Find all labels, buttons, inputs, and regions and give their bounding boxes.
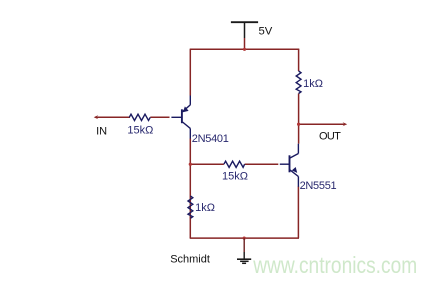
svg-text:2N5551: 2N5551 (300, 180, 337, 192)
svg-text:www.cntronics.com: www.cntronics.com (252, 252, 417, 278)
svg-text:1kΩ: 1kΩ (195, 202, 215, 214)
svg-text:2N5401: 2N5401 (192, 133, 229, 145)
svg-text:15kΩ: 15kΩ (127, 124, 153, 136)
svg-text:15kΩ: 15kΩ (222, 171, 248, 183)
svg-text:5V: 5V (259, 26, 273, 38)
svg-text:1kΩ: 1kΩ (303, 78, 323, 90)
svg-text:IN: IN (96, 125, 107, 137)
svg-text:Schmidt: Schmidt (170, 253, 210, 265)
svg-text:OUT: OUT (319, 131, 341, 143)
